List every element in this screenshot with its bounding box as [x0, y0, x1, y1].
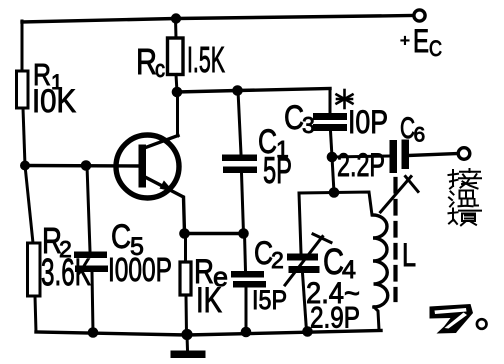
node bottom C5 [88, 327, 99, 338]
capacitor C4 [287, 254, 320, 274]
wire collector row [177, 89, 330, 93]
label Rc [136, 39, 225, 83]
wire C3 top lead [329, 89, 332, 114]
capacitor C3 [313, 113, 347, 131]
label C3 [284, 99, 388, 140]
transistor Q1 [116, 135, 185, 233]
label R2 [41, 220, 91, 294]
label +Ec [400, 23, 442, 61]
svg-text:C: C [284, 99, 304, 137]
label mixer chinese 接 [449, 169, 482, 189]
svg-text:6: 6 [414, 124, 426, 147]
label C1 [258, 123, 292, 191]
label C5 [108, 218, 172, 288]
svg-text:I5P: I5P [252, 285, 287, 315]
svg-text:3.6K: 3.6K [41, 252, 91, 294]
wire Rc top stub [174, 19, 178, 39]
wire Re bottom stub [185, 295, 189, 334]
wire C3 bottom lead [331, 131, 333, 157]
dashed core line [393, 179, 397, 300]
wire tank right top [334, 192, 372, 215]
svg-text:C: C [323, 241, 344, 282]
node emitter junction [179, 228, 190, 239]
svg-text:E: E [413, 23, 429, 59]
wire C4 bottom lead [303, 273, 307, 331]
wire C5 lower lead [92, 272, 93, 333]
svg-text:I.5K: I.5K [187, 39, 225, 80]
svg-text:5P: 5P [263, 150, 292, 191]
node base-left junction [20, 161, 30, 171]
wire C1 branch [238, 91, 241, 155]
svg-text:c: c [155, 56, 165, 83]
svg-text:C: C [429, 36, 442, 61]
wire left column upper [21, 21, 24, 71]
node C1 bottom / C2 junction [238, 228, 249, 239]
label C4 [306, 241, 360, 335]
resistor R1 [17, 71, 29, 108]
label L [402, 237, 416, 273]
label 2.2P [337, 147, 385, 183]
node bottom C2 [241, 327, 252, 338]
capacitor C2 [231, 271, 266, 288]
wire R1 to base node [23, 108, 25, 166]
label Re [194, 253, 228, 320]
resistor Re [180, 262, 191, 295]
wire base line [25, 164, 139, 168]
wire left column lower [25, 166, 33, 244]
wire C2 lower lead [245, 288, 248, 332]
wire C2 upper lead [245, 234, 246, 272]
wire Rc bottom stub [176, 75, 177, 93]
node C3/C6 junction [327, 152, 338, 163]
ground [171, 335, 206, 358]
ideographic period [477, 319, 487, 329]
label R1 [32, 57, 76, 119]
arrow C4 adjustable [285, 234, 331, 285]
label mixer chinese 频 [449, 209, 482, 226]
node Rc top junction [171, 13, 181, 23]
svg-text:2: 2 [271, 247, 284, 273]
inductor L [373, 215, 388, 307]
terminal output [458, 148, 470, 160]
wire top rail [22, 16, 413, 23]
svg-text:+: + [400, 31, 410, 50]
node collector junction [172, 87, 183, 98]
wire inductor bottom lead [374, 307, 379, 330]
wire collector down to transistor [176, 92, 179, 136]
wire tank top lead [332, 157, 334, 193]
svg-text:I0K: I0K [32, 83, 76, 119]
wire emitter row [185, 232, 244, 235]
node C1 top junction [232, 85, 243, 96]
svg-text:2.2P: 2.2P [337, 147, 385, 183]
node base/C5 junction [81, 160, 92, 171]
svg-text:3: 3 [302, 112, 315, 138]
svg-text:IK: IK [196, 281, 222, 320]
figure number 7 [430, 304, 474, 334]
svg-text:R: R [136, 41, 157, 82]
arrow L adjustable [381, 177, 419, 213]
label C2 [252, 235, 287, 315]
label C6 [400, 112, 425, 147]
node tank junction [329, 187, 340, 198]
capacitor C5 [74, 252, 108, 273]
node bottom ground [181, 329, 192, 340]
wire C1 lower lead [242, 173, 244, 234]
asterisk mark [337, 90, 353, 108]
wire Re top stub [184, 234, 187, 263]
wire bottom rail [36, 331, 381, 336]
label mixer chinese 混 [449, 191, 478, 207]
svg-text:I0P: I0P [348, 104, 388, 140]
terminal +Ec [414, 10, 425, 21]
wire C5 upper lead [87, 166, 90, 252]
wire tank left top [299, 193, 334, 254]
capacitor C6 [390, 140, 410, 174]
resistor Rc [168, 38, 184, 75]
resistor R2 [28, 243, 41, 296]
svg-text:L: L [402, 237, 416, 273]
wire R2 to bottom rail [35, 296, 36, 332]
wire C6 left lead [332, 156, 389, 157]
node bottom C4 [302, 326, 313, 337]
wire C6 right lead [409, 154, 458, 156]
svg-text:I000P: I000P [108, 251, 172, 288]
capacitor C1 [222, 155, 257, 174]
